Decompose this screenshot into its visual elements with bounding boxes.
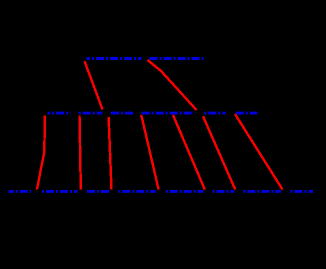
middle level run 3 (111, 112, 133, 115)
bottom level run 8 (291, 190, 314, 193)
middle level run 6 (204, 112, 225, 115)
transition L4 middle to bottom (141, 115, 158, 190)
middle level run 7 (236, 112, 257, 115)
bottom level run 7 (243, 190, 281, 193)
bottom level run 2 (42, 190, 77, 193)
bottom level run 1 (9, 190, 32, 193)
middle level run 4 (142, 112, 195, 115)
bottom level run 6 (213, 190, 235, 193)
transition L7 middle to bottom (235, 114, 283, 190)
transition L2 middle to bottom (80, 116, 81, 190)
top level segment A (87, 57, 142, 60)
transition L1 middle to bottom (37, 116, 45, 190)
transition T1 top to middle (85, 61, 103, 109)
top level segment B (150, 57, 205, 60)
transition L5 middle to bottom (173, 115, 205, 190)
bottom level run 4 (118, 190, 155, 193)
transition T2 top to middle (148, 60, 197, 110)
transition L3 middle to bottom (109, 117, 112, 190)
middle level run 2 (79, 112, 102, 115)
transition L6 middle to bottom (203, 116, 235, 189)
bottom level run 3 (87, 190, 110, 193)
bottom level run 5 (166, 190, 204, 193)
middle level run 1 (48, 112, 71, 115)
